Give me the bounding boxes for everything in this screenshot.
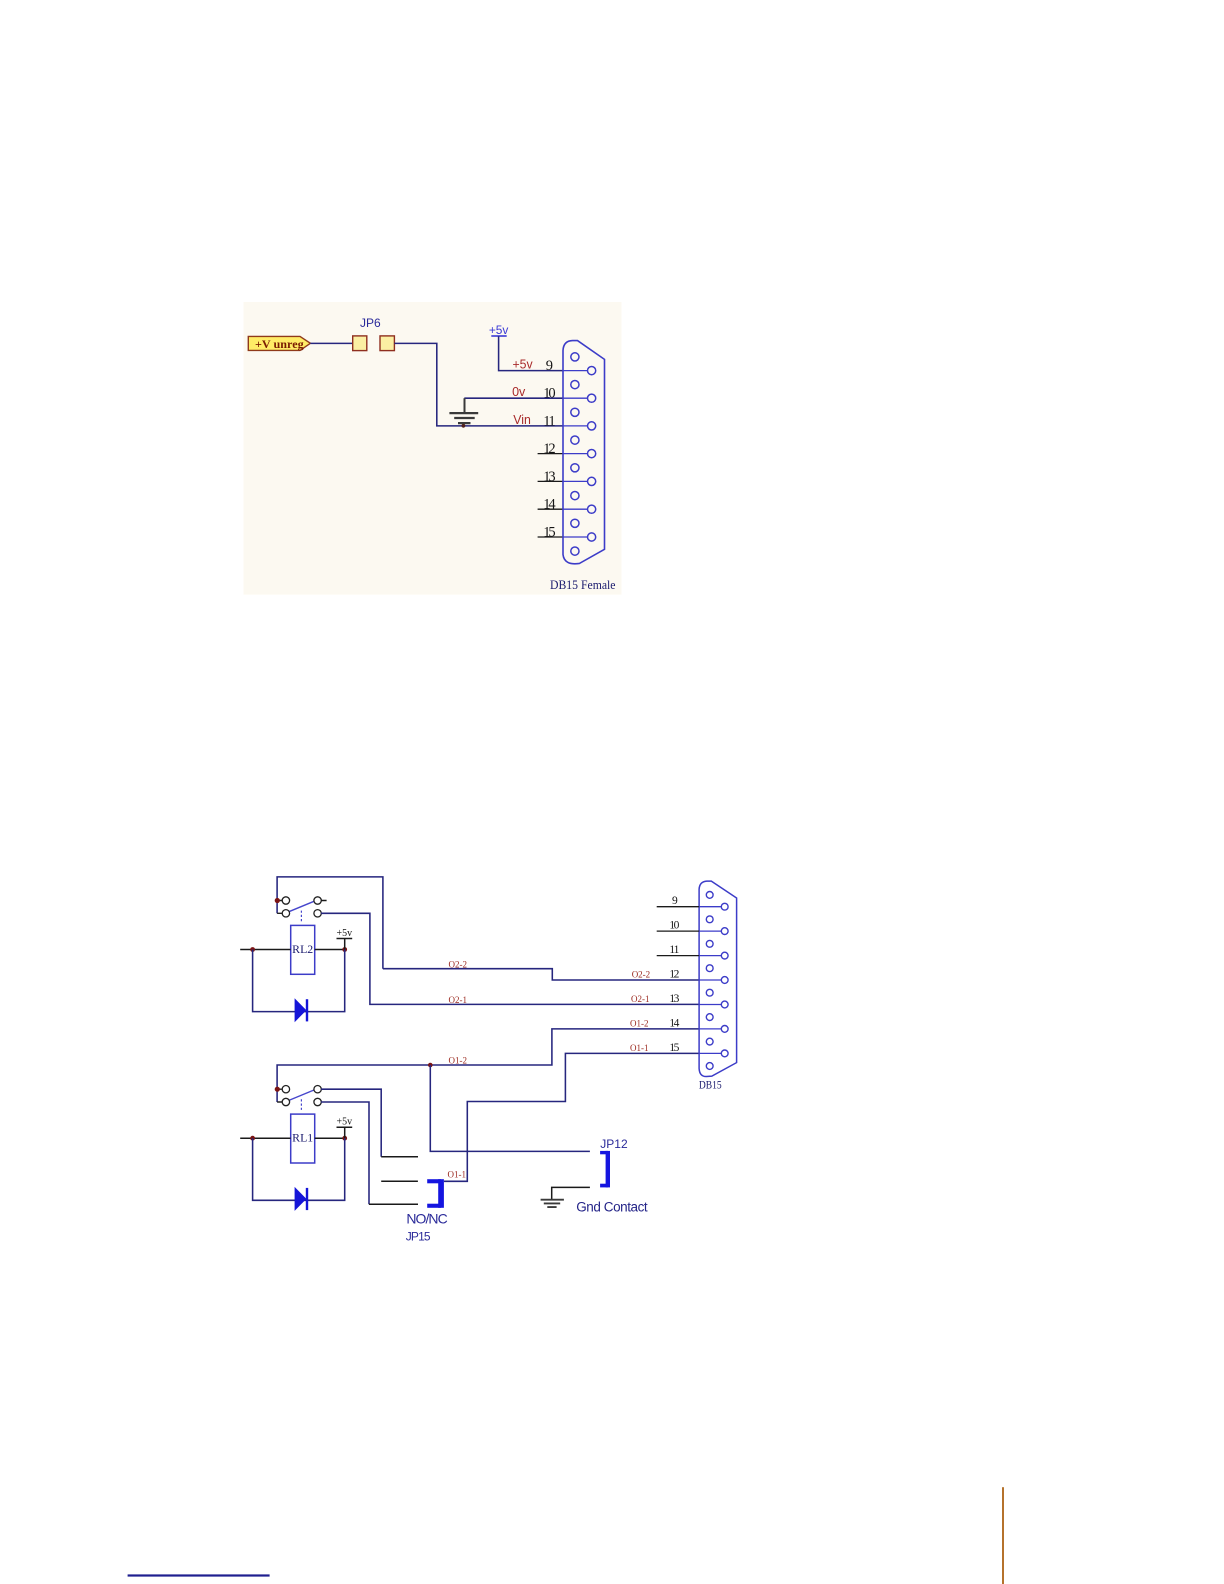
- svg-text:+5v: +5v: [513, 356, 534, 371]
- svg-text:14: 14: [669, 1017, 679, 1029]
- svg-text:O1-1: O1-1: [448, 1169, 467, 1179]
- svg-text:12: 12: [543, 441, 555, 457]
- svg-text:0v: 0v: [512, 385, 526, 399]
- svg-text:10: 10: [543, 386, 555, 402]
- svg-text:DB15 Female: DB15 Female: [550, 577, 616, 592]
- svg-text:JP12: JP12: [600, 1137, 628, 1151]
- svg-text:+5v: +5v: [337, 1116, 353, 1128]
- svg-text:15: 15: [543, 524, 555, 540]
- svg-text:RL2: RL2: [292, 944, 313, 956]
- svg-text:12: 12: [669, 968, 679, 980]
- svg-text:15: 15: [669, 1042, 679, 1054]
- svg-text:NO/NC: NO/NC: [406, 1211, 447, 1227]
- svg-text:O2-2: O2-2: [449, 960, 468, 970]
- svg-text:14: 14: [543, 497, 556, 513]
- svg-text:13: 13: [543, 469, 555, 485]
- svg-text:JP15: JP15: [406, 1229, 431, 1243]
- svg-text:9: 9: [546, 358, 553, 374]
- svg-text:O1-2: O1-2: [630, 1018, 649, 1028]
- svg-text:RL1: RL1: [292, 1133, 313, 1145]
- svg-text:O2-2: O2-2: [632, 970, 651, 980]
- svg-text:11: 11: [543, 413, 555, 429]
- svg-text:JP6: JP6: [360, 316, 381, 330]
- svg-text:11: 11: [669, 944, 679, 956]
- svg-text:DB15: DB15: [699, 1078, 722, 1092]
- svg-text:O2-1: O2-1: [631, 994, 650, 1004]
- svg-text:10: 10: [669, 920, 679, 932]
- svg-text:9: 9: [672, 895, 678, 907]
- svg-text:Gnd Contact: Gnd Contact: [576, 1200, 648, 1215]
- svg-text:O1-2: O1-2: [449, 1055, 468, 1065]
- svg-text:+5v: +5v: [489, 323, 509, 337]
- svg-text:Vin: Vin: [513, 412, 531, 427]
- svg-text:O1-1: O1-1: [630, 1043, 649, 1053]
- svg-text:+V unreg: +V unreg: [255, 337, 304, 351]
- svg-text:+5v: +5v: [337, 927, 353, 939]
- svg-text:13: 13: [669, 993, 679, 1005]
- svg-text:O2-1: O2-1: [449, 995, 468, 1005]
